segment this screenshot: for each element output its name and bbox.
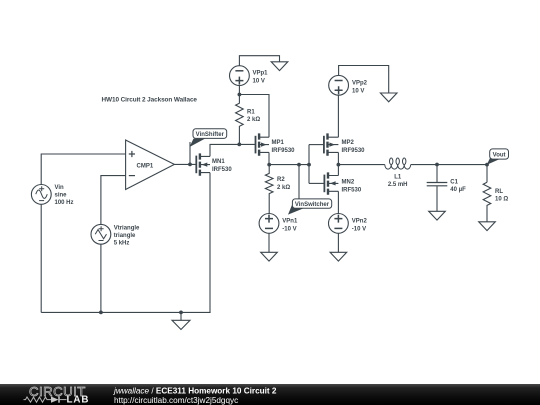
junction: VinSwitcher tap — [297, 163, 301, 167]
junction: output node — [337, 163, 341, 167]
junction: gate bus — [307, 163, 311, 167]
wire: L1 to RL top — [411, 164, 487, 166]
svg-text:10 V: 10 V — [352, 88, 364, 94]
wire: VPp2 top to ground — [339, 66, 389, 94]
wire: bottom ground rail — [41, 311, 210, 313]
svg-text:C1: C1 — [450, 180, 458, 186]
svg-text:VinShifter: VinShifter — [196, 132, 225, 138]
capacitor C1 40 uF — [427, 165, 466, 212]
junction: Vtriangle/rail — [99, 311, 103, 315]
wire: VinShifter flag stem — [189, 142, 191, 164]
wire: MN1 source down to rail — [209, 173, 211, 313]
wire: VPp2 bottom to MP2 source — [337, 95, 339, 137]
svg-text:10 Ω: 10 Ω — [495, 197, 508, 203]
voltage source VPp1 10 V — [230, 66, 269, 86]
svg-text:IRF530: IRF530 — [342, 187, 362, 193]
svg-text:10 V: 10 V — [253, 79, 265, 85]
ground (RL) — [479, 222, 496, 231]
wire: Vtriangle bottom to rail — [100, 244, 102, 312]
ground (VPp1) — [271, 62, 288, 71]
svg-text:R1: R1 — [247, 109, 255, 115]
inductor L1 2.5 mH — [385, 158, 411, 188]
wire: junction to MP1 gate — [239, 143, 255, 145]
svg-text:RL: RL — [495, 189, 503, 195]
svg-text:sine: sine — [55, 193, 68, 199]
junction: R1 bottom / MN1 drain / MP1 gate — [237, 143, 241, 147]
svg-text:CMP1: CMP1 — [137, 163, 154, 169]
svg-text:MN2: MN2 — [342, 179, 355, 185]
junction: Vout/RL — [485, 163, 489, 167]
resistor RL 10 Ohm — [483, 182, 508, 222]
svg-text:VPp2: VPp2 — [352, 80, 368, 86]
svg-text:40 µF: 40 µF — [450, 187, 466, 193]
junction: MP1 drain / R2 / wire — [267, 163, 271, 167]
wire: bus to MP2 gate — [309, 144, 324, 146]
svg-text:http://circuitlab.com/ct3jw2j5: http://circuitlab.com/ct3jw2j5dgqyc — [114, 396, 238, 405]
svg-text:MN1: MN1 — [212, 159, 225, 165]
svg-text:MP2: MP2 — [342, 140, 355, 146]
wire: VPn2 bottom to ground — [337, 233, 339, 252]
transistor MN1 IRF530 — [196, 153, 232, 175]
voltage source VPn1 -10 V — [259, 214, 298, 234]
junction: C1 tap — [435, 163, 439, 167]
svg-text:R2: R2 — [277, 177, 285, 183]
svg-text:VPn2: VPn2 — [352, 218, 368, 224]
transistor MN2 IRF530 — [324, 172, 361, 194]
voltage source Vtriangle 5 kHz — [91, 224, 140, 246]
voltage source VPp2 10 V — [329, 75, 368, 95]
ground (VPn2) — [330, 252, 347, 261]
transistor MP2 IRF9530 — [324, 133, 365, 155]
wire: CMP1 output to MN1 gate — [174, 163, 196, 165]
svg-text:2 kΩ: 2 kΩ — [277, 185, 290, 191]
svg-text:Vtriangle: Vtriangle — [114, 225, 140, 231]
wire: MP1 drain junction to gate bus — [269, 164, 309, 166]
wire: MN2 source to VPn2 — [337, 191, 339, 213]
svg-text:jwwallace / ECE311 Homework 10: jwwallace / ECE311 Homework 10 Circuit 2 — [113, 387, 277, 396]
svg-text:VPp1: VPp1 — [253, 71, 269, 77]
footer bar — [0, 384, 540, 405]
svg-text:-10 V: -10 V — [282, 226, 296, 232]
resistor R1 2 kOhm — [236, 95, 261, 145]
wire: VPn1 bottom to ground — [268, 233, 270, 252]
svg-text:5 kHz: 5 kHz — [114, 240, 130, 246]
junction: VinShifter tap — [188, 163, 192, 167]
svg-text:IRF9530: IRF9530 — [342, 148, 366, 154]
voltage source VPn2 -10 V — [329, 214, 368, 234]
voltage source Vin sine 100 Hz — [31, 185, 73, 207]
wire: MP1 drain down to output junction — [268, 152, 270, 164]
wire: VPp1 junction to MP1 source — [239, 95, 269, 138]
wire: Vin bottom to ground rail — [40, 204, 42, 312]
node Vout flag — [487, 149, 509, 165]
wire: MP2 drain to MN2 drain — [337, 152, 339, 175]
wire: bus to MN2 gate — [309, 182, 324, 184]
svg-text:MP1: MP1 — [272, 140, 285, 146]
svg-text:Vout: Vout — [493, 152, 506, 158]
svg-text:100 Hz: 100 Hz — [55, 200, 74, 206]
junction: VPp1/R1/MP1 source — [238, 93, 242, 97]
svg-text:-10 V: -10 V — [352, 226, 366, 232]
ground (VPp2) — [380, 93, 397, 102]
ground (C1) — [429, 211, 446, 220]
svg-text:VinSwitcher: VinSwitcher — [295, 202, 330, 208]
wire: Vtriangle top to CMP1 - input — [101, 176, 126, 225]
node VinShifter flag — [190, 129, 227, 147]
wire: Vin top to CMP1 + input — [41, 154, 125, 185]
wire: gate bus vertical — [308, 145, 310, 184]
svg-text:IRF530: IRF530 — [212, 167, 232, 173]
wire: RL top — [486, 165, 488, 183]
node VinSwitcher flag — [288, 199, 332, 215]
wire: VPp1 top to ground — [239, 56, 279, 66]
wire: VPp1 bottom to junction — [238, 86, 240, 95]
wire: VinSwitcher flag stem — [298, 165, 300, 203]
wire: MN1 drain up to R1 bottom junction — [210, 144, 239, 156]
ground (VPn1) — [261, 252, 278, 261]
transistor MP1 IRF9530 — [256, 133, 296, 155]
ground (bottom rail) — [172, 312, 190, 329]
svg-text:L1: L1 — [394, 175, 402, 181]
wire: output to L1 — [338, 164, 384, 166]
svg-text:LAB: LAB — [67, 394, 90, 405]
junction: rail/ground — [179, 311, 183, 315]
svg-text:HW10 Circuit 2 Jackson Wallace: HW10 Circuit 2 Jackson Wallace — [102, 96, 198, 103]
svg-text:IRF9530: IRF9530 — [272, 148, 296, 154]
svg-text:triangle: triangle — [114, 233, 136, 239]
svg-text:VPn1: VPn1 — [282, 218, 298, 224]
op-amp CMP1 — [126, 140, 175, 190]
resistor R2 2 kOhm — [265, 165, 290, 214]
svg-text:2 kΩ: 2 kΩ — [247, 117, 260, 123]
svg-text:2.5 mH: 2.5 mH — [388, 182, 408, 188]
logo resistor-diode symbol — [24, 397, 67, 403]
svg-text:Vin: Vin — [55, 185, 65, 191]
